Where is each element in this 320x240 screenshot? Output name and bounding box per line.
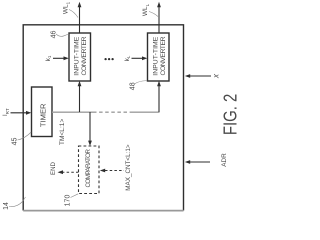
svg-text:14: 14 <box>3 202 10 210</box>
svg-text:CONVERTER: CONVERTER <box>81 36 88 75</box>
svg-text:170: 170 <box>65 195 72 207</box>
svg-text:INPUT-TIME: INPUT-TIME <box>153 36 160 75</box>
svg-text:CONVERTER: CONVERTER <box>160 36 167 75</box>
svg-text:END: END <box>50 161 57 174</box>
svg-text:TIMER: TIMER <box>39 103 48 127</box>
svg-text:FIG. 2: FIG. 2 <box>220 94 240 135</box>
svg-text:ADR: ADR <box>221 153 228 167</box>
svg-text:COMPARATOR: COMPARATOR <box>85 149 92 188</box>
svg-text:TM<L:1>: TM<L:1> <box>59 119 66 146</box>
svg-text:45: 45 <box>12 138 19 146</box>
svg-text:INPUT-TIME: INPUT-TIME <box>74 36 81 75</box>
svg-text:MAX_CNT<L:1>: MAX_CNT<L:1> <box>125 144 132 191</box>
svg-text:IRT: IRT <box>3 108 10 116</box>
